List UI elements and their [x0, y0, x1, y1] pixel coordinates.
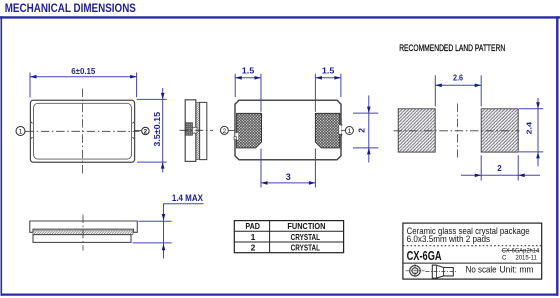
svg-text:2: 2: [251, 243, 256, 253]
svg-text:CX-6GA: CX-6GA: [407, 248, 442, 263]
svg-text:2: 2: [144, 128, 148, 135]
svg-text:3: 3: [286, 172, 291, 182]
svg-text:2: 2: [497, 164, 502, 173]
svg-text:6±0.15: 6±0.15: [71, 66, 95, 76]
svg-text:CRYSTAL: CRYSTAL: [291, 232, 320, 242]
svg-text:C: C: [502, 256, 507, 262]
svg-text:1.4 MAX: 1.4 MAX: [172, 193, 204, 203]
svg-text:1.5: 1.5: [322, 65, 335, 75]
svg-text:6.0x3.5mm with 2 pads: 6.0x3.5mm with 2 pads: [407, 234, 491, 245]
svg-text:MECHANICAL DIMENSIONS: MECHANICAL DIMENSIONS: [5, 1, 136, 15]
svg-text:1: 1: [251, 232, 256, 242]
svg-text:FUNCTION: FUNCTION: [287, 221, 325, 231]
svg-text:PAD: PAD: [245, 221, 260, 231]
svg-text:2015-11: 2015-11: [515, 256, 537, 262]
svg-text:CX-6GAp2h14: CX-6GAp2h14: [502, 248, 540, 254]
svg-text:1.5: 1.5: [242, 65, 255, 75]
svg-text:1: 1: [348, 128, 352, 135]
svg-text:No scale: No scale: [466, 264, 497, 275]
svg-text:RECOMMENDED LAND PATTERN: RECOMMENDED LAND PATTERN: [399, 43, 505, 54]
svg-text:2.6: 2.6: [453, 74, 463, 83]
svg-text:CRYSTAL: CRYSTAL: [291, 243, 320, 253]
svg-text:3.5±0.15: 3.5±0.15: [152, 112, 162, 147]
svg-text:Unit: mm: Unit: mm: [500, 264, 534, 275]
svg-text:2.4: 2.4: [525, 121, 534, 135]
svg-text:2: 2: [223, 128, 227, 135]
svg-text:2: 2: [356, 128, 366, 133]
svg-text:1: 1: [19, 128, 23, 135]
